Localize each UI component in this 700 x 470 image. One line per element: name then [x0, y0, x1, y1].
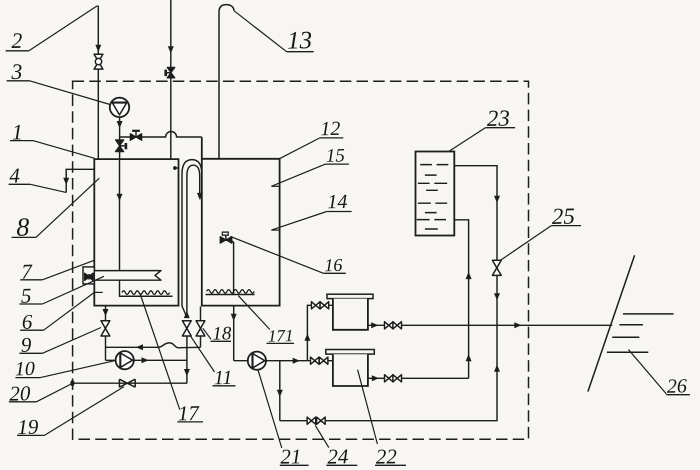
label 20 leader	[36, 384, 71, 402]
tank 23 (header tank with liquid level)	[416, 152, 455, 236]
label 171 underline	[267, 342, 295, 344]
label 16 underline	[323, 272, 345, 274]
arrow: flow down from tank 23	[494, 196, 500, 203]
label 5 leader	[42, 276, 104, 304]
label 18 underline	[211, 340, 232, 342]
arrow: flow down to drain header	[184, 369, 190, 376]
valve below pump 3 (dark)	[116, 140, 124, 152]
label 21 leader	[258, 371, 282, 448]
wire: lower exchanger outlet	[368, 377, 469, 379]
label 19 leader	[44, 387, 124, 436]
wire: pump 10 suction/discharge line	[106, 359, 188, 361]
valve pair at lower exchanger outlet	[385, 375, 394, 382]
valve with T-handle on cross-feed line	[130, 134, 141, 141]
valve 18	[196, 321, 205, 336]
label 15 underline	[325, 163, 349, 165]
svg-text:14: 14	[327, 191, 347, 213]
label 1 underline	[10, 140, 33, 142]
svg-text:13: 13	[287, 27, 313, 55]
arrow: return flow up to tank 23	[466, 272, 472, 279]
valve 16 with handle (inside right tank)	[220, 237, 232, 244]
arrow: flow down drain branch	[277, 390, 283, 397]
wire: cross-feed line to right tank (with pipe jump)	[120, 132, 202, 138]
heater flag 7 (horizontal element through left wall)	[94, 271, 161, 281]
wire: inlet pipe (center, to valve above enclosure)	[170, 0, 172, 159]
wire: drop pipe from valve 16	[232, 241, 234, 295]
label 10 underline	[15, 377, 40, 379]
valve 11	[182, 321, 191, 336]
wire: tank 23 top outlet to valve 25	[454, 166, 497, 326]
wire: upper return line with expansion bend (to valve 18 drop)	[106, 343, 201, 348]
wire: drain branch down from pump 21 line	[279, 361, 281, 421]
label 11 leader	[190, 336, 214, 372]
arrow: pump 10 discharge right	[142, 357, 149, 363]
label 20 underline	[9, 401, 37, 403]
heating element 17 (zigzag, left tank)	[122, 291, 170, 295]
wire: siphon overflow pipe outer wall	[182, 160, 202, 307]
component 26: receiving water body (bank line)	[588, 255, 635, 391]
label 18 leader	[203, 328, 211, 339]
wire: feed pipe inside left tank (from pump 3 down to bottom)	[119, 159, 121, 296]
arrow: flow left on return line	[136, 344, 143, 350]
label 4 underline	[9, 183, 31, 185]
pump 3 (circle with triangle)	[110, 98, 129, 117]
wire: inlet pipe 2 (vertical, top left)	[97, 6, 99, 160]
wire: upper exchanger outlet (main supply line to 26)	[368, 324, 612, 326]
label 24 leader	[315, 425, 329, 447]
svg-text:12: 12	[320, 118, 340, 140]
arrow: flow down inside left tank	[117, 194, 123, 201]
label 2 leader	[29, 6, 97, 51]
arrow: flow down center inlet pipe	[168, 46, 174, 53]
label 26 underline	[666, 394, 690, 396]
valve pair at upper exchanger outlet	[385, 322, 394, 329]
wire: siphon outer wall lower bend into valve 11	[182, 306, 187, 317]
tank: left reaction vessel (labels 1,5,6,7,8)	[94, 159, 178, 306]
arrow: flow up from lower outlet	[466, 354, 472, 361]
label 16 leader	[230, 236, 323, 273]
label 3 leader	[30, 81, 110, 105]
label 23 leader	[449, 128, 485, 152]
wire: vent pipe 13 with curved hook top	[219, 5, 234, 159]
label 22 underline	[375, 464, 406, 466]
valve handle (stem right with bar)	[120, 145, 126, 147]
label 7 leader	[42, 260, 94, 280]
label 5 underline	[19, 303, 42, 305]
right tank inner bottom plate	[206, 294, 255, 296]
wire: tank 23 return riser	[454, 220, 468, 378]
svg-text:16: 16	[324, 255, 342, 275]
valve pair at upper exchanger inlet	[311, 302, 320, 309]
label 3 underline	[7, 80, 30, 82]
label 7 underline	[20, 279, 42, 281]
label 15 leader	[271, 164, 325, 186]
wire: siphon overflow pipe inner wall	[187, 165, 200, 317]
arrow: upper exchanger outlet	[371, 322, 378, 328]
wire: bottom bypass line through valve 24	[280, 325, 497, 420]
arrow: supply line exits boundary	[514, 322, 521, 328]
label 21 underline	[280, 464, 309, 466]
wire: pump 21 line to lower exchanger	[234, 360, 333, 362]
valve 25	[492, 260, 501, 275]
arrow: siphon discharge into right tank	[197, 193, 203, 200]
svg-text:2: 2	[11, 28, 23, 53]
wire: pump 3 discharge down into left tank	[119, 117, 121, 159]
node: small tap with dot on left tank right wall	[175, 167, 178, 169]
valve on center inlet pipe (dark)	[167, 67, 175, 78]
arrow: flow down pipe 2	[95, 45, 101, 52]
label 14 leader	[271, 212, 326, 231]
label 12 underline	[320, 137, 344, 139]
heating element 171 (zigzag, right tank)	[207, 290, 255, 294]
label 9 underline	[19, 352, 42, 354]
water surface dashes at 26	[607, 314, 674, 352]
label 11 underline	[213, 385, 236, 387]
dashed enclosure boundary	[73, 81, 529, 439]
svg-text:171: 171	[268, 326, 294, 346]
wire: right tank drain to pump 21	[233, 306, 235, 361]
node 20: junction dot on boundary	[70, 380, 74, 386]
wire: left tank drain to valve 9 and pump 10	[105, 306, 107, 361]
pump 10	[116, 351, 134, 369]
arrow: flow up to upper exchanger	[304, 334, 310, 341]
label 12 leader	[280, 138, 320, 159]
heat exchanger box (upper)	[327, 294, 373, 298]
wire: valve 18 drop pipe from right tank bottom	[200, 307, 202, 348]
tank: right vessel (labels 12,14,15)	[202, 137, 280, 305]
component 5: small box with fitting on left tank wall	[83, 267, 94, 284]
label 8 leader	[36, 178, 99, 237]
arrow: flow down overflow pipe 4	[63, 178, 69, 185]
liquid level dashes in tank 23	[417, 165, 449, 229]
arrow: flow up into siphon	[184, 311, 190, 318]
arrow: bypass flow up	[494, 365, 500, 372]
label 6 underline	[20, 329, 43, 331]
label 4 leader	[30, 184, 66, 192]
label 13 underline	[287, 51, 314, 53]
valve pair at lower exchanger inlet	[311, 357, 320, 364]
label 23 underline	[485, 127, 515, 129]
arrow: lower exchanger outlet	[372, 375, 379, 381]
label 13 leader	[234, 11, 287, 52]
valve handle (stem left with bar)	[166, 72, 171, 74]
label 22 leader	[358, 370, 378, 444]
arrow: drain down to valve 9	[103, 309, 109, 316]
valve 19 (crossed bowtie)	[119, 379, 135, 387]
label 25 leader	[500, 226, 551, 261]
heat exchanger box 22 (lower)	[326, 350, 375, 355]
label 9 leader	[42, 328, 101, 354]
wire: branch up to upper exchanger inlet	[307, 305, 333, 360]
label 6 leader	[44, 292, 95, 330]
label 26 leader	[628, 350, 666, 395]
wire: drain header through valve 19 to boundary	[72, 382, 187, 384]
label 10 leader	[40, 360, 115, 377]
label 2 underline	[6, 50, 29, 52]
wire: overflow pipe 4 (left tank wall, L-shape)	[66, 169, 94, 192]
valve 9	[101, 321, 110, 336]
label 25 underline	[551, 225, 581, 227]
label 8 underline	[12, 236, 36, 238]
valve on pipe 2 (ball valve)	[94, 54, 103, 69]
pump 21	[248, 352, 266, 370]
label 24 underline	[326, 464, 357, 466]
arrow: pump 21 discharge right	[293, 358, 300, 364]
label 14 underline	[327, 211, 352, 213]
label 1 leader	[33, 141, 95, 159]
label 17 leader	[140, 294, 180, 410]
label 171 leader	[238, 296, 269, 330]
valve 24 (pair)	[307, 417, 316, 424]
left tank inner bottom plate	[119, 295, 173, 297]
arrow: pump 3 discharge down	[117, 121, 123, 128]
arrow: drain down to pump 21	[231, 314, 237, 321]
arrow: flow down below valve 25	[494, 293, 500, 300]
label 17 underline	[177, 421, 203, 423]
label 19 underline	[17, 434, 44, 436]
wire: valve 11 drop pipe down to drain header	[186, 336, 188, 383]
